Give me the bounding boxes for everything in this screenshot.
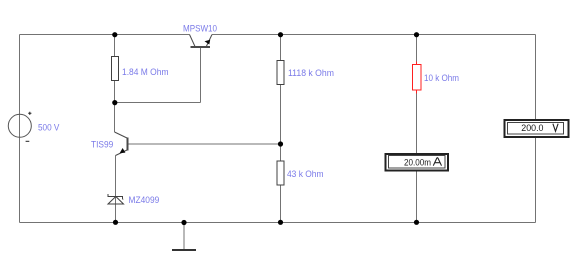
svg-text:1118 k Ohm: 1118 k Ohm <box>288 68 334 78</box>
svg-text:20.00m: 20.00m <box>404 157 431 168</box>
svg-text:MPSW10: MPSW10 <box>183 24 217 34</box>
svg-text:TIS99: TIS99 <box>91 139 113 149</box>
svg-text:1.84 M Ohm: 1.84 M Ohm <box>122 67 169 77</box>
svg-text:200.0: 200.0 <box>521 123 543 134</box>
svg-text:10 k Ohm: 10 k Ohm <box>424 73 459 83</box>
svg-text:MZ4099: MZ4099 <box>129 195 160 205</box>
svg-text:43 k Ohm: 43 k Ohm <box>287 169 324 179</box>
svg-text:500 V: 500 V <box>38 123 59 133</box>
